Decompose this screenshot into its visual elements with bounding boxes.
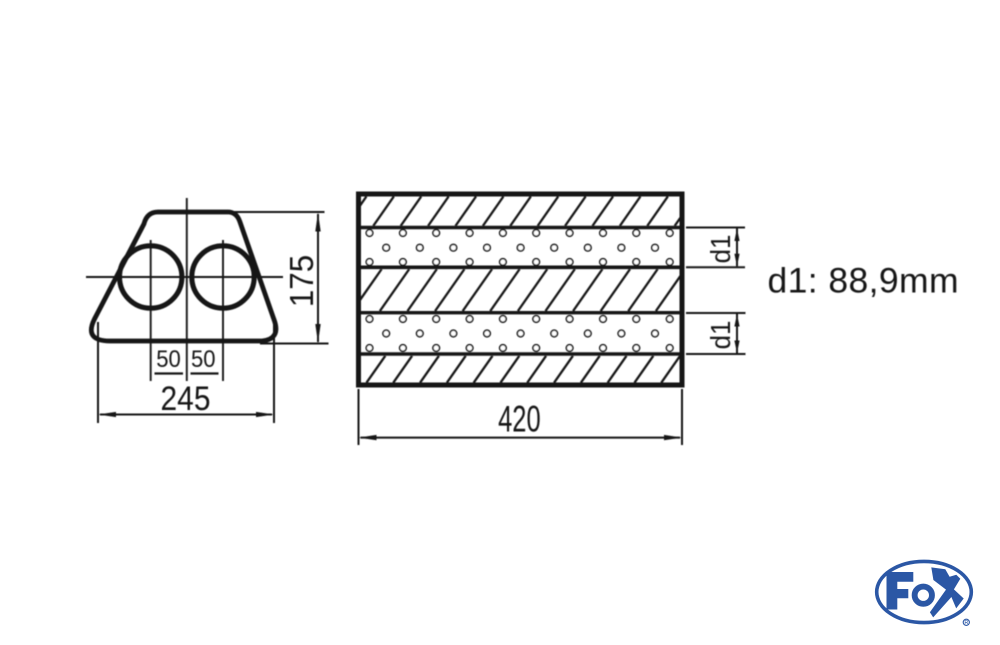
svg-text:d1: d1 [705, 321, 736, 350]
dimension 50 left dimension line [155, 372, 184, 374]
svg-text:d1: 88,9mm: d1: 88,9mm [768, 261, 959, 301]
inner pipe wall line 2 [358, 265, 683, 269]
muffler body cross-section outline (rounded trapezoid) [91, 212, 276, 341]
dimension d1 lower dimension line with arrows [736, 314, 738, 353]
logo letter F [887, 572, 914, 610]
logo letter X [930, 567, 964, 617]
left inlet pipe circle [120, 246, 182, 308]
wire main vertical center line of cross-section [186, 198, 188, 381]
muffler side-view body rectangle [359, 194, 683, 385]
dimension d1 upper extension lines [686, 227, 745, 229]
FOX logo [877, 561, 972, 625]
svg-text:420: 420 [498, 398, 541, 440]
svg-text:245: 245 [161, 379, 211, 417]
dimension 420 right extension line [681, 389, 683, 445]
right inlet pipe circle [192, 246, 254, 308]
logo registered trademark [963, 619, 969, 625]
svg-text:175: 175 [283, 255, 320, 307]
wire horizontal center line of cross-section [86, 276, 283, 278]
dimension 175 top extension line [232, 211, 325, 213]
dimension d1 lower extension lines [686, 312, 746, 314]
inner pipe wall line 1 [358, 226, 683, 229]
dimension 175 bottom extension line [260, 343, 329, 345]
svg-text:50: 50 [156, 345, 181, 372]
logo ellipse ring [877, 561, 972, 622]
perforation holes of both pipes [366, 230, 673, 352]
logo letter O [915, 587, 932, 604]
dimension 245 right extension line [273, 318, 275, 423]
dimension 245 left extension line [97, 322, 99, 423]
dimension 245 dimension line with arrows [100, 414, 272, 416]
absorption material hatching [325, 197, 713, 383]
svg-text:d1: d1 [705, 235, 736, 264]
dimension 175 dimension line with arrows [317, 214, 319, 342]
dimension d1 upper dimension line with arrows [736, 229, 738, 267]
dimension 420 left extension line [358, 389, 360, 445]
dimension 50 right dimension line [191, 372, 219, 374]
inner pipe wall line 3 [358, 311, 683, 314]
inner pipe wall line 4 [358, 352, 683, 356]
wire left pipe center line [150, 240, 152, 381]
svg-text:50: 50 [191, 345, 216, 372]
wire right pipe center line [222, 240, 224, 381]
dimension 420 dimension line with arrows [361, 437, 681, 439]
